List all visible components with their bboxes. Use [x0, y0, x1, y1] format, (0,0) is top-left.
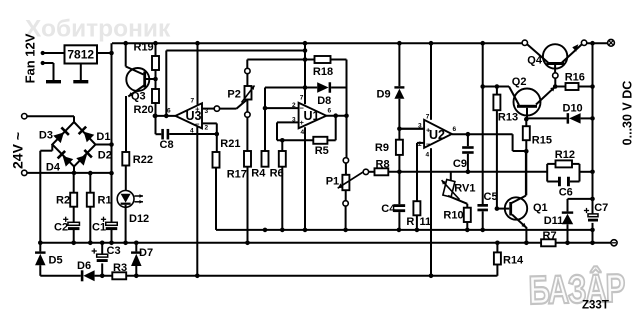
svg-text:R14: R14	[503, 255, 524, 267]
svg-text:C9: C9	[453, 158, 467, 170]
svg-text:R3: R3	[113, 262, 127, 274]
svg-text:4: 4	[190, 128, 194, 135]
svg-text:D10: D10	[563, 103, 583, 115]
svg-text:R4: R4	[251, 168, 266, 180]
svg-text:D8: D8	[317, 95, 331, 107]
svg-text:+: +	[195, 105, 200, 114]
svg-text:3: 3	[418, 123, 422, 130]
svg-text:D6: D6	[77, 260, 91, 272]
svg-text:Fan 12V: Fan 12V	[23, 33, 38, 83]
svg-text:D3: D3	[39, 130, 53, 142]
svg-text:R5: R5	[315, 145, 329, 157]
svg-text:Q3: Q3	[131, 91, 146, 103]
svg-text:U1: U1	[304, 109, 320, 123]
svg-text:R17: R17	[227, 169, 247, 181]
svg-text:C6: C6	[559, 187, 573, 199]
svg-text:11: 11	[420, 216, 432, 228]
svg-text:D7: D7	[139, 247, 153, 259]
svg-text:6: 6	[167, 108, 171, 115]
svg-text:D11: D11	[544, 215, 564, 227]
svg-text:C2: C2	[54, 222, 68, 234]
svg-text:Q1: Q1	[533, 202, 548, 214]
svg-text:2: 2	[292, 102, 296, 109]
svg-text:R19: R19	[134, 42, 154, 54]
svg-text:7: 7	[300, 95, 304, 102]
svg-text:+: +	[426, 126, 431, 135]
svg-text:R2: R2	[56, 195, 70, 207]
svg-text:−: −	[426, 140, 431, 149]
svg-text:2: 2	[205, 125, 209, 132]
svg-text:D1: D1	[96, 131, 110, 143]
svg-text:4: 4	[301, 129, 305, 136]
svg-text:R21: R21	[220, 138, 240, 150]
svg-text:+: +	[300, 118, 305, 127]
svg-text:R: R	[406, 216, 414, 228]
svg-text:БАЗÂР: БАЗÂР	[528, 265, 625, 313]
svg-text:R6: R6	[270, 168, 284, 180]
svg-text:C1: C1	[92, 222, 106, 234]
svg-text:R1: R1	[98, 195, 112, 207]
svg-text:R18: R18	[313, 66, 333, 78]
svg-text:Хобитроник: Хобитроник	[25, 16, 171, 43]
svg-text:R12: R12	[555, 149, 575, 161]
svg-text:6: 6	[328, 108, 332, 115]
svg-text:−: −	[300, 104, 305, 113]
svg-text:0...30 V DC: 0...30 V DC	[621, 81, 635, 146]
svg-text:3: 3	[292, 117, 296, 124]
svg-text:R7: R7	[543, 230, 557, 242]
svg-text:C8: C8	[160, 139, 174, 151]
svg-text:Q4: Q4	[527, 55, 543, 67]
svg-text:−: −	[195, 120, 200, 129]
svg-text:7: 7	[426, 114, 430, 121]
svg-text:RV1: RV1	[454, 182, 475, 194]
svg-text:C7: C7	[594, 202, 608, 214]
svg-text:3: 3	[205, 108, 209, 115]
svg-text:2: 2	[418, 141, 422, 148]
svg-text:7: 7	[191, 98, 195, 105]
svg-text:D5: D5	[49, 255, 63, 267]
svg-text:R8: R8	[376, 158, 390, 170]
svg-text:R9: R9	[375, 142, 389, 154]
svg-text:R15: R15	[532, 135, 552, 147]
svg-text:R22: R22	[133, 154, 153, 166]
svg-text:6: 6	[453, 126, 457, 133]
svg-text:P2: P2	[227, 89, 240, 101]
svg-text:U2: U2	[429, 128, 445, 142]
svg-text:4: 4	[426, 152, 430, 159]
svg-text:D9: D9	[377, 89, 391, 101]
svg-text:D4: D4	[46, 162, 61, 174]
svg-text:Z33T: Z33T	[582, 300, 609, 312]
svg-text:24V ~: 24V ~	[10, 132, 26, 169]
svg-text:C5: C5	[484, 191, 498, 203]
svg-text:7812: 7812	[67, 48, 94, 62]
svg-text:C4: C4	[381, 203, 396, 215]
svg-text:R20: R20	[134, 104, 154, 116]
svg-text:R10: R10	[443, 209, 463, 221]
svg-text:C3: C3	[107, 245, 121, 257]
svg-text:D2: D2	[98, 150, 112, 162]
svg-text:P1: P1	[326, 176, 339, 188]
svg-text:Q2: Q2	[512, 76, 527, 88]
svg-text:D12: D12	[129, 213, 149, 225]
svg-text:R13: R13	[498, 112, 518, 124]
svg-text:R16: R16	[565, 72, 585, 84]
